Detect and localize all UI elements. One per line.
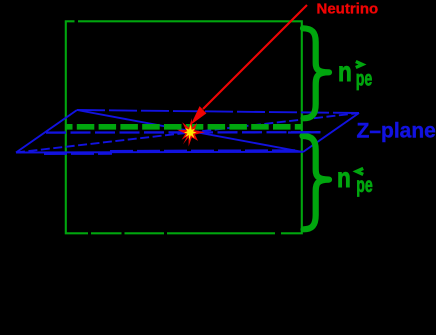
svg-text:pe: pe: [356, 68, 373, 91]
svg-text:Z–plane: Z–plane: [357, 120, 436, 143]
svg-text:n: n: [337, 162, 351, 193]
svg-text:n: n: [338, 56, 352, 87]
svg-text:pe: pe: [356, 174, 373, 197]
svg-text:Neutrino: Neutrino: [317, 1, 379, 18]
